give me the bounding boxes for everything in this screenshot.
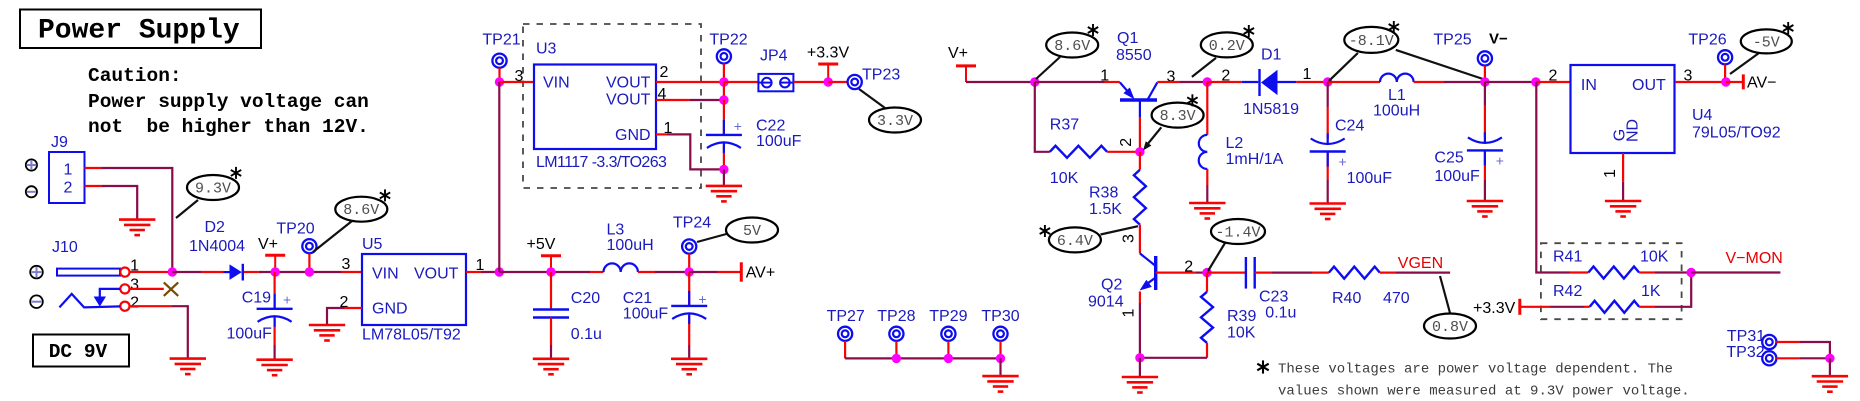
- ground (C19): [256, 360, 292, 376]
- svg-text:8.3V: 8.3V: [1160, 108, 1196, 125]
- junction TP32/ground: [1825, 354, 1834, 363]
- voltage bubble -1.4V (Q2 base): [1208, 243, 1225, 271]
- svg-text:R40: R40: [1332, 290, 1361, 307]
- svg-text:+: +: [1496, 153, 1504, 169]
- svg-text:10K: 10K: [1050, 170, 1079, 187]
- polarity mark minus (J9): [26, 186, 37, 197]
- svg-text:TP26: TP26: [1688, 32, 1726, 49]
- svg-text:GND: GND: [615, 127, 651, 144]
- svg-text:VOUT: VOUT: [414, 266, 459, 283]
- svg-text:3.3V: 3.3V: [877, 113, 913, 130]
- voltage bubble 8.3V (Q1 base): [1147, 127, 1162, 145]
- capacitor C23 0.1u: [1207, 272, 1246, 274]
- svg-text:1K: 1K: [1641, 283, 1661, 300]
- svg-text:C23: C23: [1259, 289, 1288, 306]
- ground (C20): [533, 359, 569, 375]
- svg-text:+: +: [283, 292, 291, 308]
- junction V+/R37: [1030, 77, 1039, 86]
- capacitor C19 100uF: [274, 272, 276, 309]
- svg-text:1: 1: [1302, 66, 1311, 83]
- svg-text:3: 3: [1120, 234, 1137, 243]
- wire J9 pin2 to ground: [85, 185, 103, 187]
- svg-text:C22: C22: [756, 118, 785, 135]
- svg-text:DC 9V: DC 9V: [49, 341, 108, 363]
- svg-text:1: 1: [1602, 169, 1619, 178]
- junction Q2 emitter/ground: [1135, 353, 1144, 362]
- svg-text:470: 470: [1383, 290, 1410, 307]
- junction TP22: [719, 77, 728, 86]
- svg-text:2: 2: [64, 180, 73, 197]
- ground (U5 GND): [309, 325, 345, 341]
- junction U5 out / U3 branch: [495, 267, 504, 276]
- svg-text:2: 2: [660, 64, 669, 81]
- resistor R39 10K: [1206, 273, 1208, 292]
- ground (TP31/32): [1812, 376, 1848, 392]
- ground (C24): [1310, 204, 1346, 220]
- svg-text:2: 2: [1549, 68, 1558, 85]
- resistor R42 1K: [1590, 301, 1639, 313]
- svg-text:AV−: AV−: [1747, 75, 1777, 92]
- inductor L3 100uH: [604, 263, 638, 272]
- svg-text:LM1117 -3.3/TO263: LM1117 -3.3/TO263: [536, 154, 667, 171]
- svg-text:R37: R37: [1050, 117, 1079, 134]
- capacitor C24 100uF: [1327, 82, 1329, 107]
- power symbol +3.3V: [818, 63, 838, 66]
- wire J9 pin1 to node: [85, 167, 103, 169]
- svg-text:100uH: 100uH: [1373, 103, 1420, 120]
- junction U4 in/R41 branch: [1531, 77, 1540, 86]
- svg-text:9014: 9014: [1088, 294, 1124, 311]
- voltage bubble 3.3V (TP23): [859, 89, 885, 108]
- wire Q2 emitter down: [1139, 292, 1141, 304]
- svg-text:AV+: AV+: [746, 265, 776, 282]
- capacitor C20 0.1u: [550, 272, 552, 310]
- ground (J9 pin2): [119, 220, 155, 236]
- junction L1/TP25/C25: [1480, 77, 1489, 86]
- svg-text:ND: ND: [1625, 119, 1642, 142]
- ground (Q2 emitter): [1122, 377, 1158, 393]
- svg-text:C25: C25: [1434, 150, 1463, 167]
- junction Q1 collector/L2/D1: [1203, 77, 1212, 86]
- svg-text:-8.1V: -8.1V: [1349, 33, 1394, 50]
- polarity mark plus (J9): [26, 159, 37, 170]
- inductor L2 1mH/1A: [1206, 82, 1208, 135]
- wire Q1 base down: [1139, 117, 1141, 152]
- ground (C22/U3): [706, 186, 742, 202]
- svg-text:L1: L1: [1388, 87, 1406, 104]
- svg-text:0.2V: 0.2V: [1209, 38, 1245, 55]
- ground (TP bus): [982, 376, 1018, 392]
- svg-text:TP28: TP28: [877, 308, 915, 325]
- svg-text:TP23: TP23: [862, 67, 900, 84]
- no-connect X on J10 pin3: [164, 282, 178, 296]
- svg-text:C20: C20: [571, 290, 600, 307]
- junction D1/C24/L1: [1323, 77, 1332, 86]
- svg-text:+3.3V: +3.3V: [1473, 300, 1516, 317]
- svg-text:+5V: +5V: [527, 236, 556, 253]
- wire to TP23: [828, 81, 848, 83]
- svg-text:VIN: VIN: [543, 75, 570, 92]
- svg-text:R38: R38: [1089, 185, 1118, 202]
- footnote asterisk: [1257, 360, 1268, 373]
- svg-text:values shown were measured at: values shown were measured at 9.3V power…: [1278, 384, 1690, 400]
- dashed box around R41/R42: [1541, 243, 1682, 319]
- ground (J10 pin2): [170, 359, 206, 375]
- junction R41/R42/V-MON: [1687, 268, 1696, 277]
- wire node A to D2: [172, 271, 201, 273]
- svg-text:-1.4V: -1.4V: [1215, 225, 1260, 242]
- svg-text:100uF: 100uF: [1434, 168, 1480, 185]
- svg-text:1N4004: 1N4004: [189, 238, 245, 255]
- capacitor C21 100uF: [688, 272, 690, 306]
- junction Q2 base/R39/C23: [1202, 268, 1211, 277]
- junction U4 out/TP26/AV-: [1721, 77, 1730, 86]
- svg-text:VOUT: VOUT: [606, 92, 651, 109]
- junction V+/C19: [271, 267, 280, 276]
- svg-text:5V: 5V: [743, 223, 761, 240]
- voltage bubble 9.3V (input node): [176, 200, 198, 218]
- connector J9: [49, 152, 85, 203]
- svg-text:1N5819: 1N5819: [1243, 101, 1299, 118]
- svg-text:Caution:: Caution:: [88, 65, 182, 87]
- svg-text:R41: R41: [1553, 249, 1582, 266]
- svg-text:1mH/1A: 1mH/1A: [1226, 151, 1284, 168]
- capacitor C22 100uF: [723, 100, 725, 135]
- svg-text:100uF: 100uF: [227, 326, 273, 343]
- svg-text:+: +: [734, 118, 742, 134]
- svg-text:J10: J10: [52, 239, 78, 256]
- resistor R41 10K: [1588, 267, 1639, 279]
- junction +3.3V/TP23: [824, 77, 833, 86]
- svg-text:R39: R39: [1227, 308, 1256, 325]
- wire to U4: [1485, 81, 1536, 83]
- svg-text:Power Supply: Power Supply: [38, 16, 240, 47]
- voltage bubble 8.6V (TP20): [313, 221, 352, 252]
- voltage bubble 6.4V (Q2 collector): [1101, 226, 1139, 234]
- svg-text:1.5K: 1.5K: [1089, 201, 1122, 218]
- junction Q1 base/R37/R38: [1135, 147, 1144, 156]
- svg-text:TP32: TP32: [1726, 344, 1764, 361]
- junction TP24/C21: [685, 267, 694, 276]
- node A input junction: [168, 267, 177, 276]
- wire TP22 to JP4: [724, 81, 759, 83]
- svg-text:GND: GND: [372, 301, 408, 318]
- svg-text:TP27: TP27: [827, 308, 865, 325]
- svg-text:10K: 10K: [1640, 249, 1669, 266]
- power symbol +5V: [541, 254, 561, 257]
- svg-text:100uF: 100uF: [1347, 170, 1393, 187]
- svg-text:U3: U3: [536, 41, 557, 58]
- svg-text:100uF: 100uF: [756, 133, 802, 150]
- wire to U5 VIN: [341, 271, 362, 273]
- junction C22/GND: [719, 165, 728, 174]
- wire J10 pin2 to ground: [130, 305, 172, 307]
- dashed box around U3: [523, 24, 701, 188]
- svg-text:6.4V: 6.4V: [1057, 233, 1093, 250]
- svg-text:TP31: TP31: [1727, 328, 1765, 345]
- ground (C21): [671, 359, 707, 375]
- svg-text:C21: C21: [623, 290, 652, 307]
- svg-text:V−: V−: [1489, 31, 1508, 48]
- wire J10 pin1 stub: [130, 271, 173, 273]
- svg-text:TP22: TP22: [709, 32, 747, 49]
- wire D2 to V+ node: [244, 271, 259, 273]
- svg-text:TP24: TP24: [673, 215, 711, 232]
- svg-text:TP29: TP29: [929, 308, 967, 325]
- svg-text:OUT: OUT: [1632, 77, 1666, 94]
- svg-text:3: 3: [130, 276, 139, 293]
- power symbol AV-: [1726, 81, 1743, 83]
- polarity mark plus (J10): [30, 266, 43, 279]
- wire J10 pin3 stub: [130, 288, 164, 290]
- resistor R40 470: [1329, 267, 1380, 279]
- svg-text:VOUT: VOUT: [606, 75, 651, 92]
- svg-text:J9: J9: [51, 134, 68, 151]
- svg-text:8.6V: 8.6V: [1054, 38, 1090, 55]
- svg-text:U5: U5: [362, 236, 383, 253]
- svg-text:Q2: Q2: [1101, 277, 1122, 294]
- svg-text:100uF: 100uF: [623, 306, 669, 323]
- svg-text:3: 3: [342, 256, 351, 273]
- svg-text:9.3V: 9.3V: [195, 181, 231, 198]
- voltage bubble 5V (TP24): [697, 233, 730, 242]
- diode D2 1N4004: [224, 271, 230, 273]
- svg-text:L2: L2: [1226, 135, 1244, 152]
- wire U3 pin3 stub: [500, 81, 535, 83]
- svg-text:JP4: JP4: [760, 48, 788, 65]
- wire TP ground bus: [845, 357, 1000, 359]
- svg-text:V+: V+: [258, 236, 278, 253]
- svg-text:D1: D1: [1261, 47, 1282, 64]
- power symbol V+ (right): [956, 64, 976, 67]
- voltage bubble 0.8V (VGEN): [1440, 276, 1450, 313]
- voltage bubble -8.1V: [1329, 53, 1358, 81]
- wire JP4 to +3.3V node: [793, 81, 828, 83]
- svg-text:not be higher than 12V.: not be higher than 12V.: [88, 116, 369, 138]
- net label V-MON wire: [1691, 271, 1780, 273]
- svg-text:2: 2: [130, 294, 139, 311]
- svg-text:V−MON: V−MON: [1726, 250, 1783, 267]
- test point TP23: [848, 75, 862, 89]
- svg-text:IN: IN: [1581, 77, 1597, 94]
- svg-text:8550: 8550: [1116, 47, 1152, 64]
- svg-text:TP20: TP20: [276, 221, 314, 238]
- svg-text:-5V: -5V: [1753, 34, 1780, 51]
- svg-text:1: 1: [1120, 309, 1137, 318]
- svg-text:L3: L3: [607, 222, 625, 239]
- voltage bubble 0.2V: [1192, 58, 1216, 77]
- polarity mark minus (J10): [30, 295, 43, 308]
- svg-text:VGEN: VGEN: [1398, 255, 1443, 272]
- ground (C25): [1467, 201, 1503, 217]
- junction TP21/U3 pin3: [495, 77, 504, 86]
- regulator U3 LM1117-3.3/TO263: [534, 65, 656, 150]
- svg-text:TP30: TP30: [981, 308, 1019, 325]
- power symbol AV+: [689, 271, 717, 273]
- svg-text:Q1: Q1: [1117, 30, 1138, 47]
- svg-text:These voltages are power volta: These voltages are power voltage depende…: [1278, 362, 1673, 378]
- svg-text:0.1u: 0.1u: [1265, 305, 1296, 322]
- wire U4-in node down to R41: [1536, 82, 1570, 273]
- svg-text:10K: 10K: [1227, 325, 1256, 342]
- voltage bubble -5V (AV- node): [1730, 53, 1759, 74]
- svg-text:Power supply voltage can: Power supply voltage can: [88, 91, 369, 113]
- svg-text:D2: D2: [205, 219, 226, 236]
- regulator U5 LM78L05/T92: [362, 254, 466, 325]
- voltage bubble 8.6V (V+ node): [1036, 57, 1060, 79]
- svg-text:U4: U4: [1692, 107, 1713, 124]
- svg-text:VIN: VIN: [372, 266, 399, 283]
- regulator U4 79L05/TO92: [1571, 65, 1675, 153]
- resistor R37 10K: [1050, 146, 1107, 158]
- svg-text:+: +: [698, 291, 706, 307]
- svg-text:TP25: TP25: [1433, 32, 1471, 49]
- wire V+ rail to Q1: [966, 81, 1035, 83]
- wire +5V rail: [499, 271, 590, 273]
- svg-text:+3.3V: +3.3V: [807, 45, 850, 62]
- svg-text:V+: V+: [948, 45, 968, 62]
- svg-text:TP21: TP21: [482, 32, 520, 49]
- junction pin4: [719, 95, 728, 104]
- svg-text:R42: R42: [1553, 283, 1582, 300]
- svg-text:LM78L05/T92: LM78L05/T92: [362, 327, 461, 344]
- wire TP21 node down to +5V rail: [498, 82, 500, 272]
- svg-text:1: 1: [64, 162, 73, 179]
- ground (U4 GND): [1605, 201, 1641, 217]
- junction +5V/C20: [546, 267, 555, 276]
- ground (L2): [1189, 203, 1225, 219]
- svg-text:+: +: [1339, 154, 1347, 170]
- svg-text:1: 1: [1100, 68, 1109, 85]
- wire TP22 down to pin4 node: [723, 82, 725, 100]
- svg-text:100uH: 100uH: [607, 237, 654, 254]
- inductor L1 100uH: [1328, 81, 1380, 83]
- svg-text:3: 3: [515, 68, 524, 85]
- svg-text:0.1u: 0.1u: [571, 326, 602, 343]
- svg-text:8.6V: 8.6V: [343, 202, 379, 219]
- capacitor C25 100uF: [1484, 82, 1486, 105]
- svg-text:C24: C24: [1335, 118, 1364, 135]
- svg-text:0.8V: 0.8V: [1432, 319, 1468, 336]
- label DC 9V: [33, 335, 129, 367]
- svg-text:79L05/TO92: 79L05/TO92: [1692, 125, 1781, 142]
- wire V+ node down to R37: [1035, 82, 1050, 152]
- resistor R38 1.5K: [1139, 152, 1141, 170]
- svg-text:C19: C19: [242, 290, 271, 307]
- svg-text:2: 2: [1118, 138, 1135, 147]
- power symbol V+ (input): [265, 254, 285, 257]
- title block "Power Supply": [20, 10, 261, 49]
